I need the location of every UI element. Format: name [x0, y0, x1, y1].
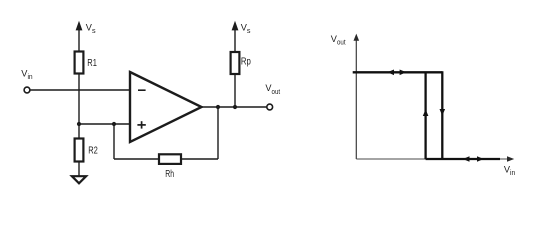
wire feedback bottom left — [114, 158, 159, 160]
curve falling edge (right vertical) — [441, 71, 443, 159]
wire feedback bottom right — [181, 158, 218, 160]
wire op-amp output to Vout terminal — [202, 106, 267, 108]
arrow up on rising edge — [423, 109, 429, 116]
op-amp U1 — [130, 72, 202, 142]
svg-text:R1: R1 — [87, 58, 97, 69]
arrow right on bottom segment — [477, 156, 484, 162]
node Vin terminal — [24, 87, 30, 93]
curve rising edge (left vertical) — [424, 72, 426, 159]
arrow down on falling edge — [440, 109, 446, 116]
arrow right on top segment — [400, 70, 407, 76]
wire feedback up to output node — [217, 107, 219, 159]
wire junction A to op-amp non-inverting input — [79, 123, 130, 125]
svg-text:Rp: Rp — [241, 56, 251, 67]
arrow left on bottom segment — [463, 156, 470, 162]
resistor R2 — [78, 124, 80, 139]
pin minus — [138, 89, 146, 91]
svg-text:R2: R2 — [88, 146, 98, 157]
wire Vin to op-amp inverting input — [30, 89, 130, 91]
resistor Rp — [231, 52, 240, 74]
svg-text:Rh: Rh — [165, 169, 174, 180]
node output junction (feedback) — [216, 105, 220, 109]
ground — [72, 176, 86, 183]
curve top segment (high output level) — [353, 71, 443, 73]
power Vs arrow (left supply) — [78, 30, 80, 52]
power Vs arrow (right supply) — [234, 30, 236, 52]
node output junction (Rp) — [233, 105, 237, 109]
graph y-axis Vout — [355, 39, 357, 159]
wire Rp to output node — [234, 74, 236, 107]
curve bottom segment (low output level) — [426, 158, 500, 160]
pin plus — [137, 124, 145, 126]
node junction B (feedback tap) — [112, 122, 116, 126]
node Vout terminal — [267, 104, 273, 110]
graph x-axis Vin — [356, 158, 508, 160]
node junction A — [77, 122, 81, 126]
wire R2 to ground — [78, 162, 80, 177]
wire feedback: junction B down — [113, 124, 115, 159]
resistor Rh — [159, 154, 181, 164]
wire R1 to junction A (crosses Vin wire) — [78, 74, 80, 125]
arrow left on top segment — [387, 70, 394, 76]
resistor R1 — [75, 52, 84, 74]
